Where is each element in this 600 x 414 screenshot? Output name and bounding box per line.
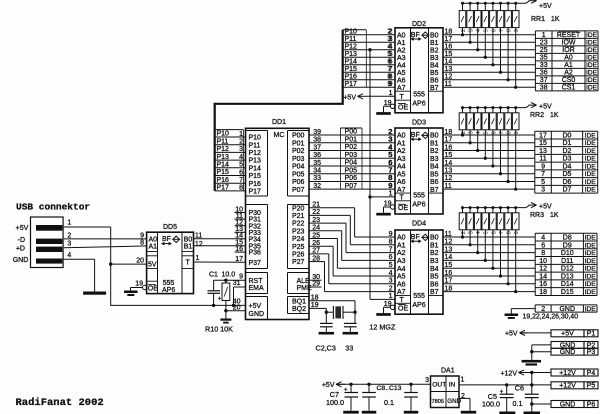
svg-text:A1: A1	[397, 140, 406, 147]
svg-text:4: 4	[387, 44, 391, 51]
svg-text:2: 2	[239, 139, 243, 146]
svg-text:DD5: DD5	[163, 224, 177, 231]
svg-text:2: 2	[461, 393, 465, 400]
svg-text:P21: P21	[292, 213, 305, 220]
svg-text:P04: P04	[292, 164, 305, 171]
svg-text:37: 37	[540, 77, 548, 84]
svg-text:4: 4	[476, 231, 482, 234]
svg-text:D5: D5	[562, 171, 571, 178]
svg-text:555: 555	[413, 293, 425, 300]
svg-text:11: 11	[539, 156, 546, 163]
svg-text:D1: D1	[562, 140, 571, 147]
svg-text:IDE: IDE	[585, 163, 597, 170]
svg-text:AP6: AP6	[412, 302, 425, 309]
svg-text:P23: P23	[292, 228, 305, 235]
svg-text:B0: B0	[430, 32, 439, 39]
svg-text:36: 36	[313, 152, 321, 159]
svg-text:AP6: AP6	[412, 101, 425, 108]
svg-text:B6: B6	[430, 77, 439, 84]
svg-text:8: 8	[541, 250, 545, 257]
svg-text:IDE: IDE	[586, 55, 598, 62]
svg-text:35: 35	[540, 55, 548, 62]
svg-text:DD3: DD3	[412, 120, 426, 127]
svg-text:PME: PME	[297, 285, 313, 292]
svg-text:29: 29	[312, 280, 320, 287]
svg-text:CS0: CS0	[562, 77, 576, 84]
svg-text:RR1: RR1	[531, 16, 545, 23]
svg-text:3: 3	[425, 377, 429, 384]
svg-text:P5: P5	[587, 383, 596, 390]
svg-text:9: 9	[514, 131, 520, 134]
svg-text:IDE: IDE	[585, 242, 597, 249]
svg-text:4: 4	[541, 234, 545, 241]
svg-text:GND: GND	[13, 257, 29, 264]
svg-text:P17: P17	[345, 81, 358, 88]
svg-text:3: 3	[469, 231, 475, 234]
svg-text:D15: D15	[561, 289, 574, 296]
svg-text:IOR: IOR	[562, 47, 574, 54]
svg-text:DD1: DD1	[272, 119, 286, 126]
svg-text:P06: P06	[345, 175, 358, 182]
svg-text:8: 8	[140, 240, 144, 247]
svg-text:IDE: IDE	[585, 132, 597, 139]
svg-text:P16: P16	[345, 74, 358, 81]
svg-text:DD2: DD2	[412, 21, 426, 28]
svg-text:+5V: +5V	[322, 382, 335, 389]
svg-text:A0: A0	[149, 236, 158, 243]
svg-text:C2,C3: C2,C3	[316, 344, 336, 353]
svg-text:P10: P10	[217, 131, 230, 138]
svg-text:A2: A2	[397, 47, 406, 54]
svg-text:P15: P15	[249, 173, 262, 180]
svg-text:38: 38	[313, 137, 321, 144]
svg-text:P36: P36	[249, 250, 262, 257]
svg-text:1: 1	[196, 255, 200, 262]
svg-text:0.1: 0.1	[513, 399, 523, 408]
svg-text:4: 4	[476, 131, 482, 134]
svg-text:1: 1	[67, 220, 71, 227]
svg-text:B5: B5	[430, 70, 439, 77]
svg-text:8: 8	[507, 231, 513, 234]
svg-text:A3: A3	[397, 55, 406, 62]
svg-text:6: 6	[491, 231, 497, 234]
svg-text:IDE: IDE	[585, 273, 597, 280]
svg-text:5: 5	[484, 131, 490, 134]
svg-text:B2: B2	[430, 148, 439, 155]
svg-text:B4: B4	[430, 266, 439, 273]
svg-text:4: 4	[388, 144, 392, 151]
svg-text:0.1: 0.1	[384, 398, 394, 407]
svg-text:P14: P14	[249, 165, 262, 172]
svg-text:-D: -D	[18, 237, 25, 244]
svg-text:IDE: IDE	[586, 47, 598, 54]
svg-text:B1: B1	[430, 40, 439, 47]
svg-text:A4: A4	[397, 62, 406, 69]
svg-text:A2: A2	[397, 250, 406, 257]
svg-text:B3: B3	[430, 156, 439, 163]
svg-text:B2: B2	[430, 250, 439, 257]
svg-text:R10 10K: R10 10K	[205, 325, 233, 334]
svg-text:39: 39	[313, 129, 321, 136]
svg-text:12 MGZ: 12 MGZ	[369, 322, 396, 331]
svg-text:3: 3	[469, 131, 475, 134]
svg-text:EMA: EMA	[249, 285, 265, 292]
svg-text:A5: A5	[397, 171, 406, 178]
svg-text:D0: D0	[562, 132, 571, 139]
svg-text:10: 10	[539, 258, 547, 265]
svg-text:P37: P37	[249, 260, 262, 267]
svg-text:B0: B0	[430, 235, 439, 242]
svg-text:P14: P14	[217, 162, 230, 169]
svg-text:4: 4	[476, 29, 482, 32]
svg-text:P06: P06	[292, 179, 305, 186]
svg-text:B3: B3	[430, 55, 439, 62]
svg-text:P00: P00	[345, 129, 358, 136]
svg-text:A0: A0	[564, 55, 573, 62]
svg-text:23: 23	[540, 40, 548, 47]
svg-text:+12V: +12V	[559, 383, 576, 390]
svg-text:555: 555	[413, 193, 425, 200]
svg-text:GND: GND	[249, 311, 265, 318]
svg-text:C8..C13: C8..C13	[377, 385, 402, 392]
svg-text:1: 1	[542, 32, 546, 39]
svg-text:35: 35	[313, 160, 321, 167]
svg-text:B3: B3	[430, 258, 439, 265]
svg-text:7: 7	[239, 177, 243, 184]
svg-text:6: 6	[541, 242, 545, 249]
svg-text:9: 9	[388, 183, 392, 190]
svg-text:7: 7	[499, 231, 505, 234]
svg-text:DD4: DD4	[412, 221, 426, 228]
svg-text:IDE: IDE	[585, 187, 597, 194]
svg-text:1: 1	[461, 377, 465, 384]
svg-text:555: 555	[163, 280, 175, 287]
svg-text:32: 32	[313, 183, 321, 190]
svg-text:P03: P03	[345, 152, 358, 159]
svg-text:A1: A1	[149, 243, 158, 250]
svg-text:5: 5	[484, 231, 490, 234]
svg-text:2: 2	[461, 29, 467, 32]
svg-text:25: 25	[540, 47, 548, 54]
svg-text:P13: P13	[345, 51, 358, 58]
svg-text:6: 6	[239, 169, 243, 176]
svg-text:1K: 1K	[551, 16, 560, 23]
svg-text:P07: P07	[345, 183, 358, 190]
svg-text:A6: A6	[397, 179, 406, 186]
svg-text:OUT: OUT	[432, 381, 446, 388]
svg-text:IDE: IDE	[585, 281, 597, 288]
svg-text:P3: P3	[587, 349, 596, 356]
svg-text:B1: B1	[430, 242, 439, 249]
svg-text:31: 31	[233, 280, 241, 287]
svg-text:17: 17	[539, 132, 547, 139]
svg-text:2: 2	[387, 29, 391, 36]
svg-text:555: 555	[413, 92, 425, 99]
svg-text:A2: A2	[564, 70, 573, 77]
svg-text:IDE: IDE	[585, 156, 597, 163]
svg-text:MC: MC	[274, 132, 285, 139]
svg-text:+5V: +5V	[249, 303, 262, 310]
svg-text:9: 9	[514, 29, 520, 32]
svg-text:A5: A5	[397, 70, 406, 77]
svg-text:8: 8	[507, 131, 513, 134]
svg-text:B4: B4	[430, 62, 439, 69]
svg-text:RadiFanat 2002: RadiFanat 2002	[16, 397, 104, 409]
svg-text:6: 6	[491, 131, 497, 134]
svg-text:IDE: IDE	[585, 306, 597, 313]
svg-text:IDE: IDE	[586, 40, 598, 47]
svg-text:D8: D8	[563, 234, 572, 241]
svg-text:2: 2	[541, 306, 545, 313]
svg-text:IOW: IOW	[562, 40, 576, 47]
svg-text:A1: A1	[397, 242, 406, 249]
svg-text:RESET: RESET	[557, 32, 581, 39]
svg-text:CS1: CS1	[562, 85, 576, 92]
svg-text:5: 5	[541, 179, 545, 186]
svg-text:14: 14	[539, 273, 547, 280]
svg-text:B5: B5	[430, 171, 439, 178]
svg-text:4: 4	[67, 252, 71, 259]
svg-text:+: +	[218, 296, 222, 302]
svg-text:RST: RST	[249, 278, 264, 285]
svg-text:A5: A5	[397, 274, 406, 281]
svg-text:9: 9	[140, 233, 144, 240]
svg-text:1: 1	[239, 131, 243, 138]
svg-text:P04: P04	[345, 160, 358, 167]
svg-text:A0: A0	[397, 235, 406, 242]
svg-text:37: 37	[313, 144, 321, 151]
svg-text:C1: C1	[209, 271, 218, 278]
svg-text:P34: P34	[249, 236, 262, 243]
svg-text:P14: P14	[345, 59, 358, 66]
svg-text:RR2: RR2	[530, 112, 544, 119]
svg-text:IDE: IDE	[585, 266, 597, 273]
svg-text:IN: IN	[449, 381, 456, 388]
svg-text:P16: P16	[249, 181, 262, 188]
svg-text:A3: A3	[397, 156, 406, 163]
svg-text:P1: P1	[587, 331, 596, 338]
svg-text:P03: P03	[292, 156, 305, 163]
svg-text:B2: B2	[430, 47, 439, 54]
svg-text:A2: A2	[397, 148, 406, 155]
svg-text:P01: P01	[292, 140, 305, 147]
svg-text:P02: P02	[292, 148, 305, 155]
svg-text:D12: D12	[561, 266, 574, 273]
svg-text:7: 7	[387, 66, 391, 73]
svg-text:IDE: IDE	[585, 140, 597, 147]
svg-text:IDE: IDE	[586, 62, 598, 69]
svg-text:P17: P17	[217, 185, 230, 192]
svg-text:B6: B6	[430, 281, 439, 288]
svg-text:+5V: +5V	[505, 331, 518, 338]
svg-text:8: 8	[387, 74, 391, 81]
svg-text:A0: A0	[397, 32, 406, 39]
svg-text:ALE: ALE	[297, 278, 311, 285]
svg-text:12: 12	[539, 266, 547, 273]
svg-text:USB connektor: USB connektor	[16, 202, 90, 213]
svg-text:IDE: IDE	[585, 250, 597, 257]
svg-text:+D: +D	[16, 245, 25, 252]
svg-text:P12: P12	[345, 44, 358, 51]
svg-text:P20: P20	[292, 205, 305, 212]
svg-text:P4: P4	[587, 370, 596, 377]
svg-text:9: 9	[541, 163, 545, 170]
svg-text:GND: GND	[559, 306, 575, 313]
svg-text:6: 6	[388, 160, 392, 167]
svg-text:GND: GND	[560, 349, 576, 356]
svg-text:P11: P11	[249, 142, 261, 149]
svg-text:P15: P15	[217, 169, 230, 176]
svg-text:IDE: IDE	[585, 234, 597, 241]
svg-text:B0: B0	[430, 133, 439, 140]
svg-text:D11: D11	[561, 258, 573, 265]
svg-text:BQ2: BQ2	[292, 306, 306, 313]
svg-text:12: 12	[195, 241, 203, 248]
svg-text:B6: B6	[430, 179, 439, 186]
svg-text:A4: A4	[397, 164, 406, 171]
svg-text:7: 7	[499, 131, 505, 134]
svg-text:P02: P02	[345, 144, 358, 151]
svg-text:1K: 1K	[550, 112, 559, 119]
svg-text:+5V: +5V	[343, 94, 356, 101]
svg-text:A3: A3	[397, 258, 406, 265]
svg-text:7805: 7805	[432, 399, 444, 405]
svg-text:P07: P07	[292, 187, 305, 194]
svg-text:IDE: IDE	[585, 258, 597, 265]
svg-text:IDE: IDE	[586, 85, 598, 92]
svg-text:B0: B0	[184, 236, 193, 243]
svg-text:P11: P11	[345, 36, 357, 43]
svg-text:38: 38	[540, 85, 548, 92]
svg-text:P01: P01	[345, 136, 358, 143]
svg-text:+5V: +5V	[539, 204, 552, 211]
svg-text:8: 8	[239, 185, 243, 192]
svg-text:OE: OE	[148, 285, 158, 292]
svg-text:8: 8	[388, 175, 392, 182]
svg-text:5: 5	[239, 162, 243, 169]
svg-text:P12: P12	[217, 146, 230, 153]
svg-text:19,22,24,26,30,40: 19,22,24,26,30,40	[523, 313, 579, 320]
svg-text:RR3: RR3	[530, 212, 544, 219]
svg-text:3: 3	[387, 36, 391, 43]
svg-text:P6: P6	[587, 401, 596, 408]
svg-text:C6: C6	[515, 383, 524, 392]
svg-text:AP6: AP6	[162, 287, 175, 294]
svg-text:D14: D14	[561, 281, 574, 288]
svg-text:P11: P11	[217, 138, 229, 145]
svg-text:P05: P05	[292, 171, 305, 178]
svg-text:P22: P22	[292, 221, 305, 228]
svg-text:IDE: IDE	[586, 70, 598, 77]
svg-text:2: 2	[461, 231, 467, 234]
svg-text:IDE: IDE	[585, 179, 597, 186]
svg-text:2: 2	[388, 129, 392, 136]
svg-text:+: +	[344, 388, 348, 394]
svg-text:P13: P13	[249, 158, 262, 165]
svg-text:3: 3	[388, 137, 392, 144]
svg-text:BQ1: BQ1	[292, 298, 306, 305]
svg-text:18: 18	[539, 289, 547, 296]
svg-text:7: 7	[541, 171, 545, 178]
svg-text:BF: BF	[162, 236, 171, 243]
svg-text:P27: P27	[292, 259, 305, 266]
svg-text:+5V: +5V	[539, 3, 552, 10]
svg-text:3: 3	[239, 146, 243, 153]
svg-text:IDE: IDE	[586, 77, 598, 84]
svg-text:5: 5	[388, 152, 392, 159]
svg-text:16: 16	[539, 281, 547, 288]
svg-text:33: 33	[540, 62, 548, 69]
svg-text:9: 9	[387, 81, 391, 88]
svg-text:3: 3	[469, 29, 475, 32]
svg-text:P00: P00	[292, 133, 305, 140]
svg-text:A1: A1	[564, 62, 573, 69]
svg-text:6: 6	[387, 59, 391, 66]
svg-text:D10: D10	[561, 250, 574, 257]
svg-text:P17: P17	[249, 189, 262, 196]
svg-text:33: 33	[345, 344, 353, 353]
svg-text:OE: OE	[398, 104, 408, 111]
svg-text:19: 19	[135, 281, 143, 288]
svg-text:P26: P26	[292, 252, 305, 259]
svg-text:2: 2	[67, 232, 71, 239]
svg-text:3: 3	[541, 187, 545, 194]
svg-text:5V: 5V	[148, 262, 157, 269]
svg-text:A0: A0	[397, 133, 406, 140]
svg-text:D7: D7	[562, 187, 571, 194]
svg-text:OE: OE	[398, 305, 408, 312]
svg-text:5: 5	[387, 51, 391, 58]
svg-text:P15: P15	[345, 66, 358, 73]
svg-text:T: T	[186, 260, 191, 267]
svg-text:10.0: 10.0	[222, 271, 236, 278]
svg-text:A4: A4	[397, 266, 406, 273]
svg-text:7: 7	[388, 168, 392, 175]
svg-text:13: 13	[539, 148, 547, 155]
svg-text:D9: D9	[563, 242, 572, 249]
svg-text:+5V: +5V	[561, 331, 574, 338]
svg-text:1K: 1K	[550, 212, 559, 219]
svg-text:A1: A1	[397, 40, 406, 47]
svg-text:IDE: IDE	[585, 289, 597, 296]
svg-text:P13: P13	[217, 154, 230, 161]
svg-text:D4: D4	[562, 163, 571, 170]
svg-text:IDE: IDE	[586, 32, 598, 39]
svg-text:100.0: 100.0	[326, 398, 344, 407]
svg-text:A6: A6	[397, 77, 406, 84]
svg-text:+12V: +12V	[500, 371, 517, 378]
svg-text:P16: P16	[217, 177, 230, 184]
svg-text:IDE: IDE	[585, 171, 597, 178]
svg-text:20: 20	[136, 258, 144, 265]
svg-text:+5V: +5V	[539, 104, 552, 111]
svg-text:DA1: DA1	[441, 368, 455, 375]
svg-text:5: 5	[484, 29, 490, 32]
svg-text:15: 15	[539, 140, 547, 147]
svg-text:34: 34	[313, 168, 321, 175]
svg-text:A6: A6	[397, 281, 406, 288]
svg-text:B1: B1	[430, 140, 439, 147]
svg-text:8: 8	[507, 29, 513, 32]
svg-text:+5V: +5V	[16, 225, 29, 232]
svg-text:9: 9	[514, 231, 520, 234]
svg-text:D6: D6	[562, 179, 571, 186]
svg-text:P24: P24	[292, 236, 305, 243]
svg-text:+12V: +12V	[559, 370, 576, 377]
svg-text:B1: B1	[184, 243, 193, 250]
svg-text:36: 36	[540, 70, 548, 77]
svg-text:4: 4	[239, 154, 243, 161]
